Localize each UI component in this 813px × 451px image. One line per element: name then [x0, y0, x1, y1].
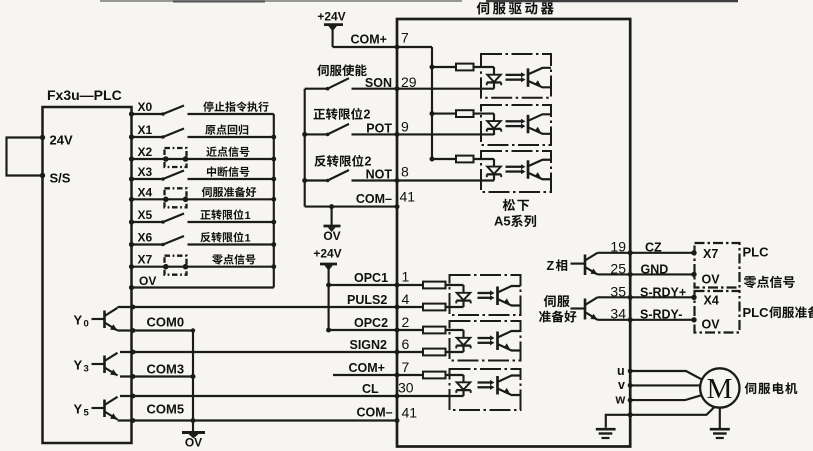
- svg-text:X7: X7: [703, 247, 718, 261]
- optocoupler U6: [450, 321, 521, 361]
- COM+ internal bus: [431, 47, 433, 159]
- svg-text:29: 29: [401, 74, 417, 90]
- wire PULS2 net: [118, 306, 398, 308]
- label 正转限位1: [200, 210, 210, 219]
- svg-text:35: 35: [610, 284, 626, 300]
- wire GND pin25: [606, 273, 694, 275]
- switch NOT: [305, 179, 328, 181]
- node pin7: [395, 45, 400, 50]
- wire SIGN2 net: [120, 351, 397, 353]
- resistor on COM+: [397, 374, 423, 376]
- svg-text:Z: Z: [547, 259, 555, 273]
- svg-text:1: 1: [245, 232, 251, 244]
- svg-text:Y: Y: [74, 358, 83, 373]
- svg-text:u: u: [617, 364, 625, 378]
- svg-text:9: 9: [401, 119, 409, 135]
- input common bus: [273, 114, 275, 288]
- wire S-RDY+ pin35: [606, 296, 694, 298]
- wire COM5 / COM- net: [118, 419, 398, 421]
- svg-text:2: 2: [402, 314, 410, 330]
- svg-text:OV: OV: [323, 229, 340, 243]
- svg-text:v: v: [618, 378, 625, 392]
- label 正转限位2: [314, 109, 325, 119]
- optocoupler U3: [481, 105, 551, 145]
- svg-text:COM+: COM+: [349, 361, 385, 375]
- node OV / wire OV return: [132, 286, 274, 288]
- svg-text:8: 8: [401, 164, 409, 180]
- switch X6: [132, 243, 164, 245]
- svg-text:+24V: +24V: [317, 10, 345, 24]
- proximity sensor X4 box: [165, 188, 187, 207]
- switch common bus: [304, 89, 306, 207]
- wire COM+ stub: [333, 374, 397, 376]
- label 反转限位2: [314, 155, 325, 167]
- svg-text:25: 25: [610, 261, 626, 277]
- wire S-RDY- pin34: [606, 319, 694, 321]
- svg-text:Y: Y: [74, 402, 83, 417]
- svg-text:COM5: COM5: [147, 402, 185, 417]
- svg-text:4: 4: [402, 291, 410, 307]
- svg-text:A5: A5: [494, 214, 511, 229]
- svg-text:1: 1: [245, 210, 251, 222]
- label 反转限位1: [200, 232, 210, 242]
- svg-text:34: 34: [610, 306, 626, 322]
- svg-text:X0: X0: [138, 100, 153, 114]
- svg-text:S/S: S/S: [50, 171, 71, 186]
- svg-text:Y: Y: [74, 313, 83, 328]
- transistor servo-ready output: [571, 307, 586, 309]
- switch SON: [305, 88, 328, 90]
- svg-text:SIGN2: SIGN2: [350, 338, 388, 352]
- svg-text:OPC1: OPC1: [354, 271, 388, 285]
- svg-text:2: 2: [364, 108, 371, 122]
- wire OPC1 branch: [329, 284, 397, 286]
- svg-text:6: 6: [402, 336, 410, 352]
- label Panasonic A5: [503, 199, 515, 211]
- svg-text:7: 7: [401, 30, 409, 46]
- svg-text:X4: X4: [138, 185, 153, 199]
- svg-text:3: 3: [84, 364, 89, 375]
- optocoupler U7: [450, 369, 521, 410]
- label servo-ready note: [544, 295, 556, 307]
- svg-text:41: 41: [402, 405, 418, 421]
- servo driver U2 box: [397, 19, 630, 447]
- svg-text:X3: X3: [138, 165, 153, 179]
- ground OV under COM bus: [182, 431, 205, 434]
- svg-text:X6: X6: [138, 231, 153, 245]
- motor ground stem: [719, 408, 721, 429]
- svg-text:OV: OV: [702, 273, 721, 287]
- svg-text:19: 19: [610, 239, 626, 255]
- svg-text:COM0: COM0: [147, 315, 185, 330]
- resistor on OPC2: [397, 329, 423, 331]
- resistor on PULS2: [397, 306, 423, 308]
- svg-text:Fx3u—PLC: Fx3u—PLC: [47, 87, 122, 103]
- PLC U1 Fx3u box: [43, 107, 132, 443]
- ground OV under COM-: [329, 204, 334, 209]
- svg-text:X7: X7: [138, 253, 153, 267]
- svg-text:S-RDY+: S-RDY+: [640, 286, 686, 300]
- svg-text:2: 2: [365, 155, 372, 169]
- switch X0: [132, 113, 164, 115]
- label 中断信号: [207, 166, 216, 176]
- label 近点信号: [206, 146, 216, 156]
- wire 24V/S-S loop: [7, 138, 43, 176]
- optocoupler U2: [481, 54, 551, 98]
- ground earth left: [596, 428, 616, 431]
- wire CL net: [120, 395, 397, 397]
- wire PE ground: [606, 407, 715, 428]
- resistor R1: [432, 66, 456, 68]
- svg-text:OPC2: OPC2: [354, 316, 388, 330]
- proximity sensor X7 box: [165, 256, 187, 275]
- svg-text:CZ: CZ: [645, 241, 662, 255]
- wire CZ pin19: [606, 252, 694, 254]
- svg-text:POT: POT: [366, 122, 392, 136]
- resistor on OPC1: [397, 284, 423, 286]
- svg-text:OV: OV: [139, 274, 156, 288]
- svg-text:1: 1: [402, 269, 410, 285]
- svg-text:NOT: NOT: [366, 168, 393, 182]
- svg-text:X2: X2: [138, 145, 153, 159]
- motor M1 servo motor: [700, 368, 739, 407]
- wire OPC2 branch: [329, 329, 397, 331]
- label servo driver title: [477, 2, 489, 15]
- label 伺服准备好: [202, 187, 212, 197]
- resistor on SIGN2: [397, 351, 423, 353]
- svg-text:5: 5: [84, 408, 90, 419]
- svg-text:+24V: +24V: [313, 247, 341, 261]
- svg-text:GND: GND: [641, 263, 669, 277]
- switch X3: [132, 178, 164, 180]
- svg-text:COM–: COM–: [357, 406, 393, 420]
- svg-text:OV: OV: [185, 436, 202, 450]
- svg-text:w: w: [615, 393, 626, 407]
- svg-text:X4: X4: [704, 294, 719, 308]
- label servo motor: [745, 382, 757, 394]
- svg-text:PLC: PLC: [743, 305, 770, 320]
- svg-text:41: 41: [400, 189, 416, 205]
- wire COM3 net: [120, 375, 193, 377]
- label 零点信号: [212, 255, 223, 265]
- label 原点回归: [205, 125, 215, 135]
- node 24V: [40, 135, 45, 140]
- wire COM- pin41: [305, 206, 397, 208]
- svg-text:PLC: PLC: [743, 245, 770, 260]
- svg-text:COM+: COM+: [351, 33, 387, 47]
- svg-text:X5: X5: [138, 208, 153, 222]
- resistor R2: [432, 113, 456, 115]
- proximity sensor X2 box: [165, 148, 187, 167]
- PLC input box X4/OV: [695, 291, 740, 333]
- label 伺服使能: [317, 64, 329, 76]
- resistor R3: [432, 158, 456, 160]
- svg-text:PULS2: PULS2: [347, 293, 387, 307]
- svg-text:SON: SON: [365, 76, 392, 90]
- crop artifact top edge: [100, 0, 462, 2]
- label 停止指令执行: [203, 101, 213, 111]
- svg-text:30: 30: [398, 380, 414, 396]
- optocoupler U5: [450, 275, 521, 315]
- optocoupler U4: [481, 151, 551, 192]
- node S/S: [40, 173, 45, 178]
- svg-text:COM3: COM3: [147, 362, 185, 377]
- wire COM+ pin7: [333, 46, 432, 48]
- svg-text:X1: X1: [138, 123, 153, 137]
- svg-text:0: 0: [84, 319, 89, 330]
- svg-text:24V: 24V: [50, 133, 73, 148]
- svg-text:S-RDY-: S-RDY-: [640, 308, 682, 322]
- svg-text:M: M: [707, 373, 733, 405]
- switch X5: [132, 221, 164, 223]
- wire COM0 net: [118, 329, 194, 331]
- svg-text:COM–: COM–: [356, 192, 392, 206]
- svg-text:OV: OV: [702, 318, 721, 332]
- svg-text:CL: CL: [362, 382, 379, 396]
- ground earth motor: [710, 428, 730, 431]
- PLC input box X7/OV: [695, 243, 740, 288]
- svg-text:7: 7: [402, 359, 410, 375]
- switch X1: [132, 136, 164, 138]
- label zero point signal: [744, 276, 757, 288]
- switch POT: [305, 133, 328, 135]
